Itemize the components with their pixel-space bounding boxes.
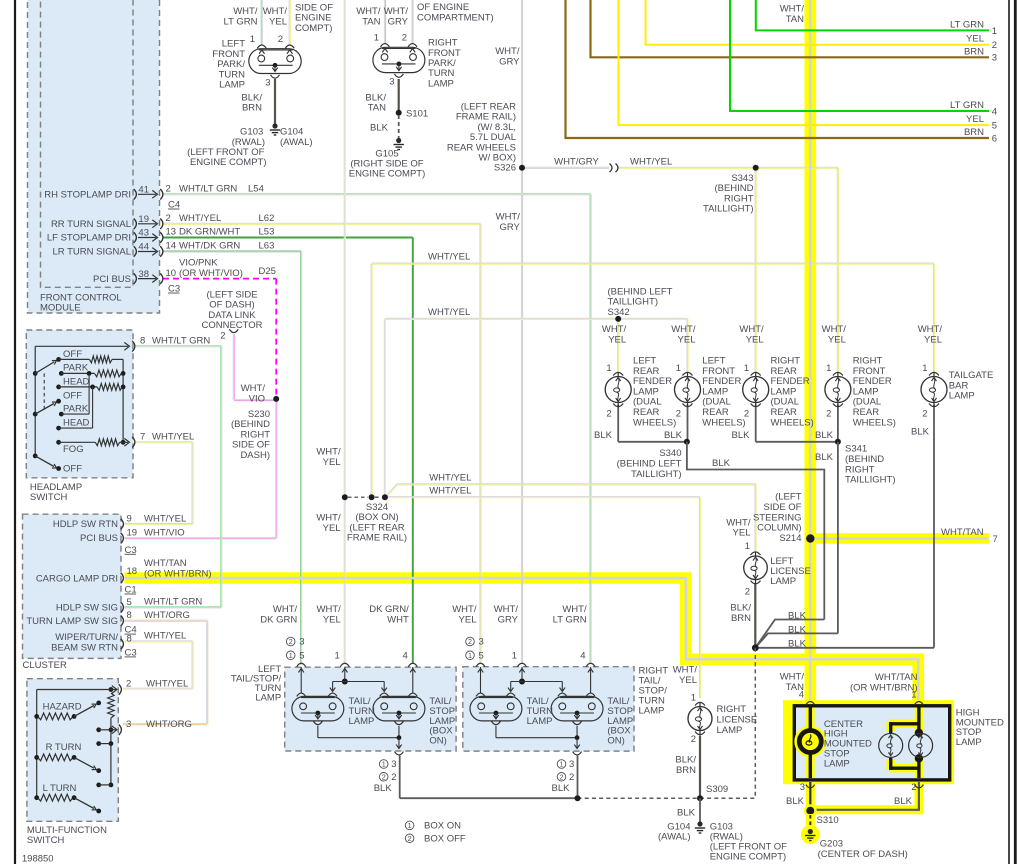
- svg-text:18: 18: [127, 566, 138, 577]
- svg-text:WHT/YEL: WHT/YEL: [428, 251, 470, 262]
- svg-text:WHT/YEL: WHT/YEL: [429, 486, 471, 497]
- lamp - tailgate bar lamp: [921, 372, 947, 406]
- label S342 (BEHIND LEFT TAILLIGHT): [608, 287, 673, 318]
- cluster pin 9 HDLP SW RTN: [53, 513, 186, 530]
- svg-text:BLK: BLK: [815, 452, 834, 463]
- svg-text:3: 3: [299, 637, 304, 648]
- cluster pin 19 PCI BUS: [80, 528, 185, 556]
- cluster pin 18 CARGO LAMP DRI: [36, 558, 212, 595]
- svg-text:YEL: YEL: [746, 334, 764, 345]
- svg-text:S326: S326: [494, 163, 516, 174]
- multi-function switch internals: [34, 684, 121, 813]
- cluster pin 5 HDLP SW SIG: [56, 597, 202, 614]
- svg-text:BLK: BLK: [911, 426, 930, 437]
- svg-text:2: 2: [606, 408, 611, 419]
- label WHT/TAN at connector 7: [941, 527, 998, 545]
- svg-text:8: 8: [127, 634, 132, 645]
- svg-text:CLUSTER: CLUSTER: [23, 660, 67, 671]
- inline connector WHT/GRY to WHT/YEL: [610, 164, 619, 173]
- svg-text:4: 4: [799, 690, 804, 701]
- svg-text:ON): ON): [429, 736, 446, 747]
- svg-text:2: 2: [126, 679, 131, 690]
- cluster pin 8 WIPER/TURN/BEAM SW RTN: [51, 631, 186, 659]
- node junction dot below left license lamp: [752, 644, 759, 651]
- label WHT/YEL license feed rows: [429, 472, 471, 496]
- node S101 splice dot: [396, 110, 402, 116]
- multi-function switch pin 3 label: [126, 719, 192, 730]
- label (LEFT REAR FRAME RAIL) S326: [447, 102, 516, 174]
- svg-text:BLK: BLK: [788, 638, 807, 649]
- svg-text:L53: L53: [259, 227, 275, 238]
- ground G105 right side of engine compt: [394, 138, 404, 150]
- label left front park lamp wire WHT/LT GRN: [224, 6, 258, 27]
- svg-text:LAMP: LAMP: [956, 737, 982, 748]
- svg-text:7: 7: [993, 534, 998, 545]
- svg-text:YEL: YEL: [966, 114, 984, 125]
- svg-text:GRY: GRY: [499, 56, 520, 67]
- label diagram number 198850: [22, 854, 54, 864]
- svg-text:2: 2: [166, 184, 171, 195]
- svg-text:5: 5: [127, 597, 132, 608]
- svg-text:5: 5: [992, 121, 997, 132]
- svg-text:PCI BUS: PCI BUS: [80, 533, 118, 544]
- ground G203 center of dash highlighted: [801, 825, 820, 844]
- wire BLK left tail lamp ground run: [400, 756, 578, 799]
- wire WHT/VIO from data link connector to splice S230 and cluster pin 19: [125, 334, 277, 539]
- label WHT/YEL below S324: [316, 513, 341, 534]
- svg-text:LT GRN: LT GRN: [553, 615, 587, 626]
- svg-text:7: 7: [140, 432, 145, 443]
- lamp - left front park/turn lamp: [249, 45, 301, 78]
- lamp - left front fender lamp: [675, 372, 701, 406]
- wire LT GRN to connector pin 1: [756, 0, 989, 30]
- label G104 (AWAL): [280, 127, 313, 148]
- svg-text:ON): ON): [607, 736, 624, 747]
- svg-text:LAMP: LAMP: [255, 693, 281, 704]
- labels left front fender lamp: [671, 324, 745, 428]
- labels right tail box ground pins: [552, 759, 575, 794]
- labels tailgate bar lamp: [911, 324, 993, 437]
- center high mounted stop lamp box highlighted: [783, 700, 954, 784]
- wire BLK S309 to ground: [699, 798, 701, 822]
- svg-text:YEL: YEL: [459, 615, 477, 626]
- wire WHT/YEL to left front park lamp pin 2: [289, 0, 290, 45]
- svg-text:1: 1: [468, 651, 472, 660]
- svg-text:STEERING: STEERING: [753, 512, 802, 523]
- svg-text:(AWAL): (AWAL): [658, 832, 691, 843]
- svg-text:LAMP: LAMP: [770, 576, 796, 587]
- svg-text:ENGINE COMPT): ENGINE COMPT): [710, 851, 787, 862]
- label G203 and center of dash: [818, 839, 908, 860]
- svg-text:3: 3: [126, 719, 131, 730]
- pin labels left front park lamp 1 2 3: [250, 34, 283, 89]
- svg-text:TURN LAMP SW SIG: TURN LAMP SW SIG: [26, 616, 118, 627]
- page border right: [1009, 0, 1015, 864]
- wire YEL to connector pin 2: [646, 0, 990, 45]
- svg-text:13: 13: [166, 227, 177, 238]
- svg-text:YEL: YEL: [323, 523, 341, 534]
- svg-text:GRY: GRY: [388, 16, 409, 27]
- label BLK on S340 run: [712, 458, 731, 469]
- FCM pin 44 LR TURN SIGNAL: [53, 241, 275, 258]
- CHMSL entry arcs: [806, 701, 924, 787]
- labels TAIL/STOP LAMP (BOX ON) left box: [429, 696, 455, 747]
- label S340 (BEHIND LEFT TAILLIGHT): [617, 448, 682, 480]
- svg-text:WHT/YEL: WHT/YEL: [428, 307, 470, 318]
- svg-text:3: 3: [389, 77, 394, 88]
- wire highlight band - WHT/TAN main vertical (cargo lamp circuit): [804, 0, 816, 705]
- label WHT/GRY mid vertical: [496, 212, 521, 233]
- label WHT/YEL right license: [673, 665, 698, 686]
- wire YEL to connector pin 5: [619, 0, 990, 125]
- wire WHT/GRY to right front park lamp pin 2: [412, 0, 413, 45]
- label BLK above G105: [370, 123, 389, 134]
- svg-text:LAMP: LAMP: [527, 716, 553, 727]
- svg-text:WHEELS): WHEELS): [702, 417, 745, 428]
- svg-text:(OR WHT/VIO): (OR WHT/VIO): [179, 268, 243, 279]
- label HIGH MOUNTED STOP LAMP: [956, 707, 1004, 748]
- svg-text:5: 5: [479, 651, 484, 662]
- svg-text:9: 9: [127, 514, 132, 525]
- lamp - left license lamp: [744, 552, 768, 584]
- wire WHT/YEL from S324 splice to tailgate bar lamp: [371, 263, 935, 495]
- svg-text:14: 14: [166, 241, 177, 252]
- lamp internals - left tail/turn and tail/stop lamps: [292, 663, 425, 755]
- svg-text:1: 1: [992, 26, 997, 37]
- svg-text:WHT/YEL: WHT/YEL: [146, 679, 188, 690]
- svg-text:1: 1: [512, 651, 517, 662]
- wire WHT/TAN highlighted core - main vertical: [809, 0, 812, 705]
- svg-text:44: 44: [138, 242, 149, 253]
- label S343 (BEHIND RIGHT TAILLIGHT): [703, 173, 754, 215]
- label LEFT LICENSE LAMP: [770, 556, 811, 587]
- label S230 splice: [231, 409, 270, 461]
- svg-text:2: 2: [745, 587, 750, 598]
- labels right license lamp pins: [691, 693, 696, 746]
- label left front park/turn lamp: [212, 39, 245, 91]
- wire BLK junction diagonal to S341 branch: [755, 633, 838, 647]
- svg-text:S309: S309: [706, 784, 728, 795]
- svg-text:L63: L63: [259, 241, 275, 252]
- node S340 splice dot: [684, 439, 690, 445]
- labels BLK at S340: [594, 430, 683, 441]
- svg-text:YEL: YEL: [924, 334, 942, 345]
- svg-text:WHT/YEL: WHT/YEL: [179, 213, 221, 224]
- svg-text:COLUMN): COLUMN): [757, 523, 801, 534]
- headlamp switch internals: [33, 341, 135, 471]
- left tail/stop/turn lamp box: [231, 664, 456, 751]
- node S324 splice dots with dashed links: [342, 494, 388, 500]
- svg-text:HEAD: HEAD: [63, 376, 90, 387]
- svg-text:S342: S342: [608, 307, 630, 318]
- svg-text:LR TURN SIGNAL: LR TURN SIGNAL: [53, 247, 131, 258]
- lamp - CHMSL left bulb pin 4 highlighted: [794, 708, 826, 779]
- svg-text:6: 6: [992, 133, 997, 144]
- wire BLK S340 down and right to junction: [687, 442, 824, 620]
- wire WHT/YEL inline connector to S343 and right fender lamps: [617, 167, 838, 372]
- lamp - right license lamp: [688, 702, 712, 734]
- svg-text:2: 2: [569, 772, 574, 783]
- svg-text:4: 4: [992, 106, 997, 117]
- wire BLK right rear fender lamp to S341: [756, 405, 838, 442]
- label BLK below S341: [815, 452, 834, 463]
- right tail/stop/turn lamp box: [463, 666, 668, 751]
- data link connector: [201, 290, 262, 342]
- svg-text:RR TURN SIGNAL: RR TURN SIGNAL: [51, 219, 131, 230]
- svg-text:YEL: YEL: [678, 334, 696, 345]
- FCM connector label C4: [168, 200, 180, 211]
- svg-text:8: 8: [127, 610, 132, 621]
- ground G103/G104 left front of engine compt: [270, 123, 280, 135]
- wire L63 WHT/DK GRN from FCM pin 44 to left tail lamp: [163, 251, 302, 665]
- svg-text:L TURN: L TURN: [43, 783, 77, 794]
- svg-text:TAILLIGHT): TAILLIGHT): [631, 469, 682, 480]
- FCM connector label C3: [168, 284, 180, 295]
- svg-text:HAZARD: HAZARD: [43, 702, 82, 713]
- svg-text:TAN: TAN: [368, 103, 386, 114]
- svg-text:LT GRN: LT GRN: [950, 100, 984, 111]
- wire BLK left front fender lamp to S340: [687, 405, 689, 442]
- svg-text:2: 2: [408, 834, 412, 843]
- svg-text:BRN: BRN: [676, 765, 696, 776]
- label G104 (AWAL) at S309 ground: [658, 821, 691, 842]
- labels right front fender lamp: [822, 324, 896, 428]
- labels left tail box pins and wires: [260, 604, 409, 661]
- svg-text:WHEELS): WHEELS): [853, 417, 896, 428]
- FCM pin 43 LF STOPLAMP DRI: [47, 227, 274, 244]
- svg-text:LAMP: LAMP: [639, 705, 665, 716]
- wire WHT/YEL cluster wiper/turn rtn to multi-function switch pin 2: [123, 641, 193, 689]
- svg-text:LICENSE: LICENSE: [717, 715, 758, 726]
- label WHT/YEL row y319: [428, 307, 470, 318]
- label S310: [817, 815, 839, 826]
- wire BLK right tail lamp ground run: [577, 756, 579, 799]
- label WHT/YEL above S324: [316, 447, 341, 468]
- wire BLK dashed S310 to ground G203 highlighted: [806, 814, 815, 829]
- svg-text:LF STOPLAMP DRI: LF STOPLAMP DRI: [47, 233, 131, 244]
- svg-text:(LEFT: (LEFT: [775, 492, 802, 503]
- svg-text:2: 2: [166, 213, 171, 224]
- label CHMSL pin 3 BLK: [786, 782, 805, 807]
- label CHMSL pin 1 wire WHT/TAN (OR WHT/BRN): [850, 672, 918, 701]
- multi-function switch box: [27, 679, 118, 847]
- lamp - right front fender lamp: [825, 372, 851, 406]
- lamp - right front park/turn lamp: [373, 44, 425, 78]
- svg-text:PARK: PARK: [63, 363, 89, 374]
- svg-text:(CENTER OF DASH): (CENTER OF DASH): [818, 849, 908, 860]
- svg-text:1: 1: [289, 651, 293, 660]
- wire BLK right front fender lamp to S341: [837, 405, 839, 442]
- svg-text:1: 1: [911, 690, 916, 701]
- svg-text:YEL: YEL: [323, 615, 341, 626]
- node S341 splice dot: [835, 439, 841, 445]
- svg-text:(AWAL): (AWAL): [280, 137, 313, 148]
- svg-text:2: 2: [289, 637, 293, 646]
- label RIGHT LICENSE LAMP: [717, 704, 758, 736]
- svg-text:DK GRN: DK GRN: [260, 615, 297, 626]
- svg-text:2: 2: [922, 408, 927, 419]
- FCM pin 19 RR TURN SIGNAL: [51, 213, 274, 230]
- label BLK/BRN left license: [730, 603, 751, 624]
- svg-text:PCI BUS: PCI BUS: [93, 274, 131, 285]
- svg-text:DK GRN/WHT: DK GRN/WHT: [179, 227, 240, 238]
- svg-text:BLK: BLK: [894, 796, 913, 807]
- svg-text:S310: S310: [817, 815, 839, 826]
- wire WHT/ORG cluster turn lamp sw sig to multi-function switch pin 3: [123, 620, 208, 725]
- svg-text:8: 8: [140, 336, 145, 347]
- svg-text:19: 19: [138, 214, 149, 225]
- wire L54 WHT/LT GRN from FCM pin 41 to right tail lamp pin 4: [163, 194, 591, 664]
- svg-text:DASH): DASH): [240, 450, 270, 461]
- svg-text:HEAD: HEAD: [63, 417, 90, 428]
- svg-text:2: 2: [468, 637, 472, 646]
- label BLK/BRN: [241, 92, 262, 113]
- svg-text:YEL: YEL: [828, 334, 846, 345]
- labels BLK x3 at junction: [788, 611, 807, 650]
- wire BLK dashed S309 horizontal run: [578, 797, 756, 799]
- lamp - right rear fender lamp: [743, 372, 769, 406]
- svg-text:(OR WHT/BRN): (OR WHT/BRN): [144, 569, 212, 580]
- label WHT/YEL left license: [726, 517, 751, 538]
- legend box on/off: [405, 821, 466, 845]
- svg-text:3: 3: [265, 78, 270, 89]
- svg-text:4: 4: [580, 651, 585, 662]
- lamp internals - right tail/turn and tail/stop lamps: [470, 663, 603, 755]
- svg-text:3: 3: [479, 637, 484, 648]
- wire BRN to connector pin 6: [566, 0, 990, 138]
- label WHT/GRY top of S326 wire: [495, 46, 520, 67]
- node S342 splice dot: [615, 316, 621, 322]
- page border left: [14, 0, 16, 864]
- label BLK/BRN right license: [675, 755, 696, 776]
- svg-text:BOX ON: BOX ON: [424, 821, 461, 832]
- svg-text:WHT/YEL: WHT/YEL: [144, 631, 186, 642]
- FCM pin 38 PCI BUS: [93, 258, 276, 285]
- svg-text:BLK: BLK: [786, 796, 805, 807]
- svg-text:LAMP: LAMP: [349, 716, 375, 727]
- labels right tail box pins and wires: [452, 604, 587, 661]
- wire BLK/BRN left license lamp pin 2 to junction: [754, 584, 756, 648]
- svg-text:COMPARTMENT): COMPARTMENT): [417, 12, 494, 23]
- svg-text:BLK: BLK: [788, 625, 807, 636]
- svg-text:GRY: GRY: [499, 222, 520, 233]
- label WHT/YEL after inline connector: [630, 156, 672, 167]
- wire BLK junction diagonal to S340 branch: [755, 620, 824, 648]
- svg-text:BLK: BLK: [594, 430, 613, 441]
- wire BLK left rear fender lamp to S340: [618, 405, 687, 442]
- labels TAIL/STOP LAMP (BOX ON) right box: [607, 696, 633, 747]
- svg-text:S214: S214: [779, 533, 801, 544]
- svg-text:(OR WHT/BRN): (OR WHT/BRN): [850, 682, 918, 693]
- svg-text:1: 1: [676, 363, 681, 374]
- svg-text:WHEELS): WHEELS): [771, 417, 814, 428]
- label (LEFT SIDE OF STEERING COLUMN) S214: [753, 492, 802, 545]
- wire WHT/YEL headlamp switch pin 7 to cluster pin 9: [125, 442, 194, 525]
- svg-text:BEAM SW RTN: BEAM SW RTN: [51, 642, 118, 653]
- wire L53 DK GRN/WHT from FCM pin 43 to left tail lamp pin 4: [163, 238, 413, 665]
- label G103 (RWAL)(LEFT FRONT OF ENGINE COMPT): [710, 821, 787, 862]
- svg-text:BOX OFF: BOX OFF: [424, 834, 466, 845]
- svg-text:5: 5: [299, 651, 304, 662]
- wire BLK dashed junction down to S309 run: [754, 648, 756, 798]
- wire BLK tailgate bar lamp to junction: [755, 405, 934, 648]
- labels left rear fender lamp: [602, 324, 676, 428]
- svg-text:SWITCH: SWITCH: [30, 492, 68, 503]
- svg-text:BLK: BLK: [552, 783, 571, 794]
- headlamp switch pin 8 label: [140, 336, 210, 347]
- svg-text:L54: L54: [248, 184, 264, 195]
- cluster pin 8 TURN LAMP SW SIG: [26, 610, 190, 636]
- wire BLK/BRN right license lamp pin 2 to S309: [699, 736, 701, 799]
- svg-text:BRN: BRN: [964, 46, 984, 57]
- svg-text:HDLP SW SIG: HDLP SW SIG: [56, 603, 118, 614]
- svg-text:LAMP: LAMP: [428, 78, 454, 89]
- svg-text:ENGINE COMPT): ENGINE COMPT): [349, 169, 426, 180]
- svg-text:2: 2: [744, 408, 749, 419]
- wire WHT/YEL from S324 to left license lamp: [385, 484, 756, 551]
- svg-text:198850: 198850: [22, 854, 54, 864]
- svg-text:BLK: BLK: [370, 123, 389, 134]
- node S343 splice dot: [753, 165, 759, 171]
- labels BLK at S341: [732, 430, 834, 441]
- svg-text:3: 3: [391, 759, 396, 770]
- labels right rear fender lamp: [739, 324, 813, 428]
- wire highlight band - S214 to connector 7 WHT/TAN: [806, 533, 989, 543]
- svg-text:YEL: YEL: [269, 16, 287, 27]
- svg-text:TAILLIGHT): TAILLIGHT): [703, 204, 754, 215]
- svg-text:D25: D25: [259, 266, 276, 277]
- svg-text:RIGHT: RIGHT: [717, 704, 747, 715]
- svg-text:MODULE: MODULE: [40, 303, 81, 314]
- svg-text:BLK: BLK: [788, 611, 807, 622]
- svg-text:WHT: WHT: [387, 615, 409, 626]
- svg-text:BLK: BLK: [732, 430, 751, 441]
- wire BLK CHMSL pin 3 to S310 highlighted: [806, 782, 815, 808]
- wire WHT/YEL from S324 to right license lamp: [385, 497, 701, 698]
- wire highlight band - cluster CARGO LAMP DRI run: [125, 578, 919, 705]
- svg-text:4: 4: [403, 651, 408, 662]
- label CHMSL pin 2 BLK: [894, 782, 916, 807]
- label WHT/GRY S326 run: [554, 156, 599, 167]
- wire WHT/TAN to right front park lamp pin 1: [384, 0, 385, 45]
- svg-text:TAN: TAN: [786, 14, 804, 25]
- svg-text:2: 2: [391, 772, 396, 783]
- svg-text:2: 2: [826, 408, 831, 419]
- svg-text:WHT/GRY: WHT/GRY: [554, 156, 599, 167]
- lamp - left rear fender lamp: [605, 372, 631, 406]
- multi-function switch pin 2 label: [126, 679, 188, 690]
- label G105 (RIGHT SIDE OF ENGINE COMPT): [349, 148, 426, 179]
- wire LT GRN to connector pin 4: [730, 0, 989, 111]
- svg-text:WHT/YEL: WHT/YEL: [630, 156, 672, 167]
- label S324 (BOX ON)(LEFT REAR FRAME RAIL): [347, 502, 407, 544]
- FCM pin 41 RH STOPLAMP DRI: [44, 184, 264, 201]
- label cut-off (LEFT SIDE OF ENGINE COMPT): [295, 3, 333, 34]
- svg-text:WHT/DK GRN: WHT/DK GRN: [179, 241, 240, 252]
- labels TAIL/TURN LAMP right box: [527, 696, 554, 727]
- node tail lamp ground junction dot: [575, 795, 581, 801]
- right edge connector labels 1-6: [950, 19, 997, 144]
- node S309 splice dot: [697, 795, 703, 801]
- svg-text:WHT/ORG: WHT/ORG: [146, 719, 192, 730]
- svg-text:S101: S101: [406, 109, 428, 120]
- svg-text:1: 1: [745, 541, 750, 552]
- labels left tail box ground pins: [374, 759, 397, 794]
- svg-text:1: 1: [382, 760, 386, 769]
- svg-text:BLK: BLK: [374, 783, 393, 794]
- svg-text:BLK: BLK: [815, 430, 834, 441]
- wire WHT/TAN highlighted core - S214 to right connector 7: [810, 537, 989, 540]
